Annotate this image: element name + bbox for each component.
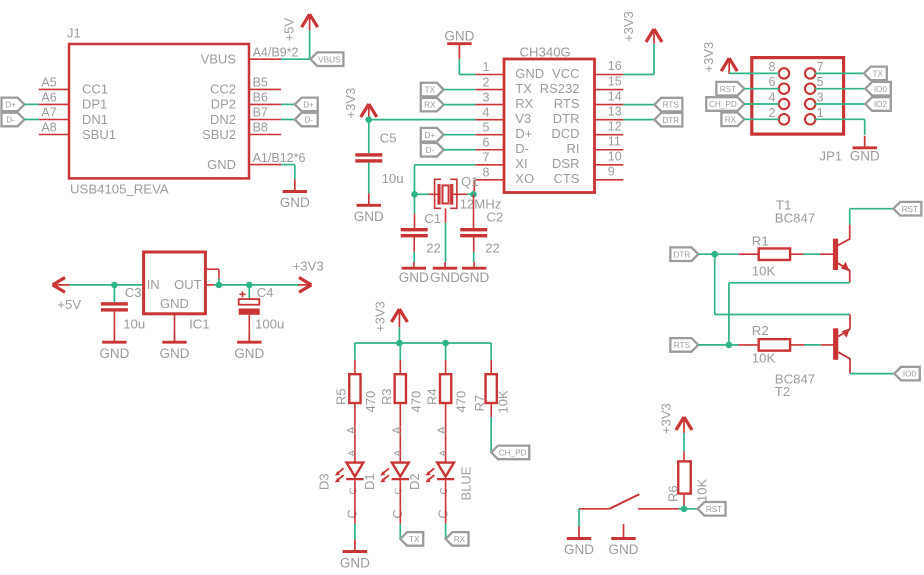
svg-text:BC847: BC847 (775, 211, 815, 226)
R2 name label (752, 323, 769, 338)
crystal Q1 right pin (453, 193, 467, 195)
CH340G pin 7 stub (475, 164, 504, 166)
wire D- (444, 149, 476, 151)
junction node rail 1 (396, 340, 403, 347)
svg-text:1: 1 (817, 106, 824, 120)
wire D- to J1 pin A7 (24, 119, 38, 121)
wire rail to R3 (399, 343, 401, 360)
ground symbol below switch left (564, 527, 594, 558)
svg-text:VBUS: VBUS (318, 55, 341, 64)
R6 name label (666, 485, 681, 502)
J1 pin A6 (DP1) stub (39, 103, 69, 105)
IC1 name label (189, 317, 210, 332)
ground symbol below IC1 (160, 330, 190, 361)
svg-text:4: 4 (483, 105, 490, 119)
flag IO0 at JP1 (865, 82, 891, 96)
CH340G pin 3 stub (475, 104, 504, 106)
svg-text:A: A (438, 450, 449, 457)
svg-text:A: A (345, 426, 359, 434)
wire V3 net to pin 4 (369, 119, 476, 121)
svg-text:GND: GND (399, 270, 429, 285)
JP1 pin number 6 (769, 75, 776, 89)
JP1 pad 8 (779, 68, 789, 78)
ground symbol below C4 (234, 330, 264, 361)
J1 pin A5 (CC1) stub (39, 88, 69, 90)
resistor R4 top pin (445, 360, 447, 374)
CH340G pin 6 stub (475, 149, 504, 151)
capacitor C1 pin top (414, 214, 416, 228)
capacitor C4 pin bottom (248, 315, 250, 330)
svg-text:GND: GND (515, 66, 544, 81)
wire R4 to LED D2 (445, 403, 447, 463)
resistor R2 (759, 339, 790, 351)
svg-text:TX: TX (515, 81, 532, 96)
switch S1 actuator (610, 494, 640, 509)
C1 value 22 (426, 240, 441, 255)
J1 pin B5 (CC2) stub (249, 88, 281, 90)
J1 pin name DP1 (82, 97, 107, 112)
J1 pin name DN1 (82, 112, 108, 127)
flag D- (left of J1) (2, 113, 25, 127)
LED D3 cathode pin (354, 480, 356, 523)
flag CH_PD below R7 (491, 446, 529, 460)
crystal case pin (445, 208, 447, 223)
J1 pin B7 (DN2) stub (249, 119, 281, 121)
svg-text:C2: C2 (486, 210, 503, 225)
svg-text:CH_PD: CH_PD (499, 449, 527, 458)
svg-text:DP1: DP1 (82, 97, 107, 112)
svg-text:B5: B5 (253, 76, 268, 90)
svg-text:IC1: IC1 (189, 317, 210, 332)
resistor R7 top pin (490, 360, 492, 374)
svg-text:C: C (394, 487, 405, 494)
switch S1 left contact (579, 508, 610, 510)
R7 value 10K (496, 390, 511, 413)
JP1 pin number 1 (817, 106, 824, 120)
svg-text:7: 7 (817, 60, 824, 74)
flag TX at CH340G pin 2 (421, 83, 444, 97)
svg-text:A: A (435, 426, 449, 434)
J1 pin name CC2 (210, 82, 236, 97)
svg-text:T2: T2 (775, 384, 790, 399)
svg-text:RX: RX (725, 115, 737, 124)
JP1 pad 5 (805, 84, 815, 94)
svg-text:22: 22 (485, 240, 500, 255)
svg-text:VCC: VCC (552, 66, 579, 81)
C2 name label (486, 210, 503, 225)
svg-text:RS232: RS232 (540, 81, 580, 96)
svg-text:2: 2 (769, 106, 776, 120)
svg-text:DTR: DTR (553, 111, 580, 126)
JP1 pad 6 (779, 84, 789, 94)
svg-text:GND: GND (340, 555, 370, 570)
C3 value 10u (123, 317, 145, 332)
JP1 pad 2 (779, 114, 789, 124)
svg-text:6: 6 (769, 75, 776, 89)
flag IO2 at JP1 (865, 97, 891, 111)
J1 pin name CC1 (82, 82, 108, 97)
svg-text:R6: R6 (666, 485, 681, 502)
wire XI from crystal to pin 7 (415, 165, 476, 195)
J1 pin name SBU2 (202, 127, 236, 142)
svg-text:TX: TX (425, 86, 436, 95)
JP1 pad 1 (805, 114, 815, 124)
junction node XI (411, 191, 418, 198)
svg-text:D1: D1 (362, 473, 377, 490)
IC1 GND pin (174, 314, 176, 330)
svg-text:2: 2 (483, 75, 490, 89)
svg-text:6: 6 (483, 135, 490, 149)
CH340G pin 4 stub (475, 119, 504, 121)
capacitor C4 negative plate (239, 309, 260, 315)
svg-text:+3V3: +3V3 (293, 258, 324, 273)
CH340G pin number 12 (608, 119, 622, 133)
svg-text:R1: R1 (752, 234, 769, 249)
CH340G pin name RTS (554, 96, 580, 111)
CH340G pin name RX (515, 96, 533, 111)
svg-text:22: 22 (426, 240, 441, 255)
wire R2 to T2 base (804, 344, 820, 346)
CH340G pin name V3 (515, 111, 531, 126)
header JP1 outline (752, 58, 844, 135)
CH340G pin name D- (515, 141, 529, 156)
R3 name label (379, 388, 394, 405)
J1 pin A1/B12*6 (GND) stub (249, 164, 281, 166)
CH340G pin number 1 (483, 60, 490, 74)
CH340G pin number 8 (483, 166, 490, 180)
svg-text:7: 7 (483, 151, 490, 165)
svg-text:10K: 10K (752, 351, 776, 366)
svg-text:RX: RX (454, 535, 466, 544)
transistor T2 base bar (833, 328, 838, 360)
capacitor C2 (460, 228, 487, 237)
wire R6 to RST (679, 506, 698, 509)
svg-text:470: 470 (363, 391, 378, 413)
svg-text:A: A (347, 450, 358, 457)
wire +3V3 to JP1 pin 8 (729, 72, 779, 74)
resistor R2 right pin (790, 344, 804, 346)
svg-text:C1: C1 (424, 211, 441, 226)
JP1 pin number 8 (769, 60, 776, 74)
wire LED rail (355, 342, 491, 344)
svg-text:470: 470 (454, 391, 469, 413)
J1 pin B8 (SBU2) stub (249, 134, 281, 136)
CH340G pin 5 stub (475, 134, 504, 136)
ground symbol below C3 (99, 330, 129, 361)
wire IO0 from JP1 pin 5 (815, 88, 865, 90)
svg-text:10u: 10u (123, 317, 145, 332)
svg-text:8: 8 (483, 166, 490, 180)
svg-text:C3: C3 (125, 285, 142, 300)
resistor R5 top pin (354, 360, 356, 374)
JP1 pin number 7 (817, 60, 824, 74)
J1 pin label A1/B12*6 (253, 151, 306, 165)
svg-text:C: C (436, 509, 450, 518)
CH340G pin 8 stub (475, 179, 504, 181)
LED D1 pin label c small (394, 487, 405, 494)
R1 value 10K (752, 264, 776, 279)
IC1 pin name IN (147, 277, 160, 292)
wire +5V to IC1 IN (70, 284, 144, 286)
wire XI to C1 (414, 194, 416, 213)
svg-text:D-: D- (6, 116, 15, 125)
CH340G pin name D+ (515, 126, 532, 141)
CH340G pin 16 stub (595, 74, 624, 76)
capacitor C4 positive plate (239, 299, 260, 305)
switch S1 second contact pin (623, 524, 625, 526)
svg-text:V3: V3 (515, 111, 531, 126)
svg-text:A: A (393, 450, 404, 457)
svg-text:D3: D3 (317, 473, 332, 490)
R4 value 470 (454, 391, 469, 413)
wire RX to JP1 pin 2 (744, 118, 779, 120)
CH340G pin 1 stub (475, 74, 504, 76)
CH340G pin name DTR (553, 111, 580, 126)
T2 value BC847 (775, 372, 815, 387)
JP1 name label (819, 148, 842, 163)
svg-text:5: 5 (483, 120, 490, 134)
svg-text:RST: RST (902, 205, 918, 214)
CH340G pin name DCD (551, 126, 579, 141)
svg-text:D-: D- (515, 141, 529, 156)
T1 value BC847 (775, 211, 815, 226)
resistor R4 (440, 374, 451, 403)
svg-text:DCD: DCD (551, 126, 579, 141)
svg-text:TX: TX (409, 535, 420, 544)
LED D1 pin label C (391, 509, 405, 518)
wire R3 to LED D1 (399, 403, 401, 463)
wire +3V3 to R6 (683, 433, 685, 451)
wire J1 GND (281, 165, 295, 180)
resistor R2 left pin (738, 344, 758, 346)
svg-text:XI: XI (515, 156, 527, 171)
CH340G pin number 2 (483, 75, 490, 89)
svg-text:+5V: +5V (281, 18, 296, 42)
flag RST at button (698, 502, 726, 516)
svg-text:C: C (439, 487, 450, 494)
wire VBUS vertical (309, 30, 311, 59)
LED D2 name label (407, 473, 422, 490)
flag D+ (left of J1) (2, 98, 25, 112)
wire C3 top (113, 285, 115, 302)
power +3V3 at C5 (343, 88, 377, 120)
IC1 pin name OUT (174, 277, 202, 292)
transistor T1 collector (837, 225, 850, 246)
capacitor C1 (401, 228, 428, 237)
wire OUT to +3V3 (214, 284, 298, 286)
CH340G pin 13 stub (595, 119, 624, 121)
JP1 pin number 4 (769, 91, 776, 105)
svg-text:USB4105_REVA: USB4105_REVA (70, 181, 169, 196)
J1 pin name GND (207, 157, 236, 172)
CH340G pin number 6 (483, 135, 490, 149)
C5 name label (380, 131, 397, 146)
svg-text:A7: A7 (41, 106, 56, 120)
flag D+ (right of J1) (295, 98, 318, 112)
CH340G pin number 13 (608, 104, 622, 118)
svg-text:RI: RI (567, 141, 580, 156)
wire JP1 pin 1 to ground (815, 119, 865, 135)
flag CH_PD at JP1 (706, 97, 744, 111)
svg-text:GND: GND (354, 209, 384, 224)
J1 value label USB4105_REVA (70, 181, 169, 196)
wire D+ to J1 pin A6 (24, 103, 38, 105)
CH340G pin 10 stub (595, 164, 624, 166)
wire rail to R7 (490, 343, 492, 360)
capacitor C1 pin bottom (413, 237, 415, 251)
LED D1 emission arrows (380, 468, 389, 482)
capacitor C5 (355, 153, 382, 162)
svg-text:10K: 10K (694, 479, 709, 502)
wire R1 to T1 base (803, 253, 820, 255)
svg-text:+3V3: +3V3 (659, 403, 674, 434)
wire DTR (698, 253, 738, 255)
CH340G pin number 16 (608, 59, 622, 73)
svg-text:GND: GND (430, 270, 460, 285)
svg-text:GND: GND (444, 28, 474, 43)
J1 pin label B5 (253, 76, 268, 90)
CH340G pin name DSR (552, 156, 579, 171)
svg-text:IN: IN (147, 277, 160, 292)
IC U1 CH340G outline (504, 59, 595, 193)
resistor R6 top pin (683, 451, 685, 461)
CH340G pin 12 stub (595, 134, 624, 136)
wire VBUS horizontal (281, 58, 310, 60)
wire RTS (698, 344, 738, 346)
ground symbol below switch middle (609, 527, 639, 558)
wire DTR pin 13 (623, 119, 654, 121)
svg-text:A5: A5 (41, 76, 56, 90)
wire T2 collector to IO0 (850, 373, 894, 375)
svg-text:DTR: DTR (662, 116, 679, 125)
switch S1 right contact (638, 508, 678, 510)
ground symbol below crystal (430, 262, 460, 285)
J1 pin name DP2 (211, 97, 236, 112)
svg-text:D+: D+ (5, 101, 16, 110)
LED D3 emission arrows (335, 468, 344, 482)
JP1 pin number 5 (817, 75, 824, 89)
LED D3 pin label A (345, 426, 359, 434)
wire CH_PD to JP1 pin 4 (744, 103, 779, 105)
wire LED rail vertical (398, 327, 400, 343)
IC1 regulator outline (144, 252, 206, 314)
CH340G pin 15 stub (595, 89, 624, 91)
LED D1 triangle (392, 463, 409, 477)
LED D2 cathode bar (437, 478, 454, 480)
wire R5 to LED D3 (354, 403, 356, 463)
svg-text:DN1: DN1 (82, 112, 108, 127)
flag TX below D1 (400, 532, 423, 546)
svg-text:10K: 10K (752, 264, 776, 279)
svg-text:CC1: CC1 (82, 82, 108, 97)
CH340G pin name RI (567, 141, 580, 156)
wire D+ (444, 134, 476, 136)
IC1 feedback loop (205, 269, 219, 285)
transistor T2 base pin (821, 344, 834, 346)
capacitor C2 pin top (473, 214, 475, 228)
J1 name label (67, 26, 81, 41)
wire T1 emitter to RTS net (729, 283, 850, 345)
CH340G pin 14 stub (595, 104, 624, 106)
CH340G pin number 15 (608, 74, 622, 88)
flag D- at CH340G pin 6 (421, 143, 444, 157)
LED D3 pin label c small (348, 487, 359, 494)
svg-text:4: 4 (769, 91, 776, 105)
power +5V arrow left (53, 278, 70, 293)
J1 pin label A8 (41, 121, 56, 135)
J1 pin label A4/B9*2 (253, 45, 299, 59)
junction node C4 (246, 282, 253, 289)
LED D1 pin label A (390, 426, 404, 434)
svg-text:GND: GND (850, 148, 880, 163)
crystal Q1 left bracket (435, 179, 441, 208)
svg-text:RX: RX (515, 96, 533, 111)
junction node RTS (726, 342, 733, 349)
+5V label (57, 297, 81, 312)
J1 pin A8 (SBU1) stub (39, 134, 69, 136)
CH340G pin number 7 (483, 151, 490, 165)
svg-text:5: 5 (817, 75, 824, 89)
LED D2 value BLUE (458, 466, 473, 500)
LED D3 cathode bar (346, 478, 363, 480)
svg-text:GND: GND (234, 346, 264, 361)
CH340G name label (520, 45, 571, 60)
wire IO2 from JP1 pin 3 (815, 103, 865, 105)
svg-text:IO2: IO2 (874, 100, 888, 109)
svg-text:BLUE: BLUE (458, 466, 473, 500)
svg-text:CC2: CC2 (210, 82, 236, 97)
J1 pin label A5 (41, 76, 56, 90)
crystal Q1 left plate (437, 184, 440, 205)
svg-text:10u: 10u (382, 171, 404, 186)
svg-text:OUT: OUT (174, 277, 202, 292)
transistor T2 collector (838, 352, 850, 373)
wire C2 to ground (473, 252, 475, 263)
flag RX at JP1 (721, 113, 744, 127)
svg-text:A8: A8 (41, 121, 56, 135)
power +3V3 arrow right (298, 278, 311, 293)
ground symbol below C5 (354, 193, 384, 224)
wire C1 to ground (413, 252, 415, 263)
LED D2 emission arrows (426, 468, 435, 482)
svg-text:RTS: RTS (663, 101, 680, 110)
svg-text:B7: B7 (253, 106, 268, 120)
CH340G pin name RS232 (540, 81, 580, 96)
J1 pin A7 (DN1) stub (39, 119, 69, 121)
USB connector J1 outline (69, 44, 249, 178)
svg-text:R5: R5 (334, 388, 349, 405)
flag DTR at CH340G (654, 113, 682, 127)
flag RX at CH340G pin 3 (421, 98, 444, 112)
LED D1 name label (362, 473, 377, 490)
power +3V3 at JP1 (701, 42, 737, 74)
wire crystal case to ground (445, 223, 447, 263)
svg-text:D-: D- (304, 116, 313, 125)
LED D3 pin label C (346, 509, 360, 518)
C4 name label (257, 285, 274, 300)
wire D+ J1 pin B6 (281, 103, 295, 105)
wire D2 cathode to RX flag (445, 524, 447, 539)
svg-text:13: 13 (608, 104, 622, 118)
wire rail to R4 (445, 343, 447, 360)
J1 pin label B8 (253, 121, 268, 135)
svg-text:RX: RX (424, 101, 436, 110)
resistor R7 bottom pin (490, 403, 492, 417)
capacitor C3 (101, 302, 128, 311)
C2 value 22 (485, 240, 500, 255)
svg-text:+3V3: +3V3 (373, 301, 388, 332)
svg-text:CTS: CTS (554, 171, 580, 186)
